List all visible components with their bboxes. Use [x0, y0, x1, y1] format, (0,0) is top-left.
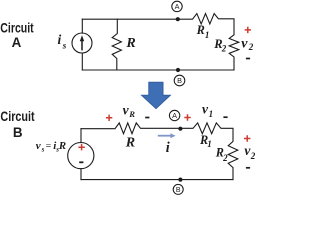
svg-text:s: s	[41, 146, 45, 154]
svg-text:A: A	[175, 2, 180, 11]
svg-text:B: B	[176, 187, 181, 194]
svg-text:v: v	[241, 36, 248, 51]
svg-text:=: =	[46, 141, 52, 152]
svg-text:Circuit: Circuit	[0, 109, 35, 124]
svg-text:R: R	[196, 23, 205, 37]
svg-text:2: 2	[250, 151, 256, 161]
svg-text:A: A	[12, 35, 22, 50]
svg-text:B: B	[13, 125, 23, 140]
svg-text:v: v	[36, 140, 41, 152]
svg-text:2: 2	[248, 42, 254, 52]
svg-text:1: 1	[207, 139, 212, 149]
svg-text:R: R	[58, 140, 66, 152]
svg-text:s: s	[62, 40, 67, 50]
svg-text:2: 2	[222, 153, 228, 163]
svg-text:1: 1	[209, 109, 214, 119]
svg-text:i: i	[58, 32, 62, 47]
svg-text:2: 2	[221, 43, 227, 53]
svg-text:1: 1	[205, 30, 210, 40]
svg-text:R: R	[125, 36, 135, 51]
svg-text:B: B	[177, 76, 182, 85]
svg-text:i: i	[166, 140, 170, 156]
svg-text:A: A	[172, 111, 177, 120]
svg-text:R: R	[125, 136, 135, 151]
svg-text:Circuit: Circuit	[0, 20, 34, 35]
svg-text:R: R	[128, 109, 135, 119]
